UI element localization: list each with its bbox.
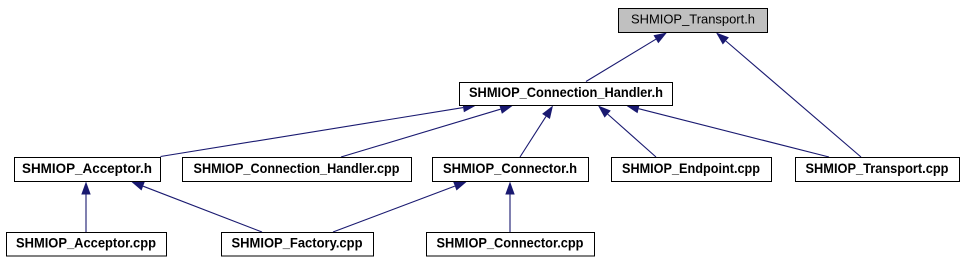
wire Transport.cpp to Transport.h bbox=[716, 33, 861, 158]
node SHMIOP_Acceptor.cpp bbox=[7, 233, 167, 257]
wire Endpoint.cpp to Connection_Handler.h bbox=[598, 106, 656, 158]
svg-text:SHMIOP_Acceptor.cpp: SHMIOP_Acceptor.cpp bbox=[16, 235, 156, 251]
wire Connector.h to Connection_Handler.h bbox=[520, 106, 553, 158]
node SHMIOP_Factory.cpp bbox=[222, 233, 374, 257]
wire Connector.cpp to Connector.h bbox=[505, 182, 514, 233]
svg-text:SHMIOP_Endpoint.cpp: SHMIOP_Endpoint.cpp bbox=[622, 160, 760, 176]
node SHMIOP_Connection_Handler.h bbox=[460, 83, 673, 106]
wire Connection_Handler.h to Transport.h bbox=[586, 33, 667, 82]
node SHMIOP_Connection_Handler.cpp bbox=[183, 158, 412, 182]
wire Transport.cpp to Connection_Handler.h bbox=[626, 104, 829, 157]
node SHMIOP_Connector.cpp bbox=[427, 233, 595, 257]
node SHMIOP_Acceptor.h bbox=[15, 158, 161, 182]
svg-text:SHMIOP_Acceptor.h: SHMIOP_Acceptor.h bbox=[22, 160, 152, 176]
wire Acceptor.cpp to Acceptor.h bbox=[81, 182, 90, 233]
svg-text:SHMIOP_Connection_Handler.h: SHMIOP_Connection_Handler.h bbox=[469, 84, 663, 100]
svg-text:SHMIOP_Transport.cpp: SHMIOP_Transport.cpp bbox=[806, 160, 949, 176]
wire Factory.cpp to Connector.h bbox=[333, 182, 467, 233]
svg-text:SHMIOP_Connector.h: SHMIOP_Connector.h bbox=[443, 160, 577, 176]
node SHMIOP_Transport.h (root, grey) bbox=[619, 9, 768, 33]
wire Connection_Handler.cpp to Connection_Handler.h bbox=[341, 105, 513, 157]
node SHMIOP_Endpoint.cpp bbox=[612, 158, 772, 182]
svg-text:SHMIOP_Factory.cpp: SHMIOP_Factory.cpp bbox=[232, 235, 363, 251]
svg-text:SHMIOP_Connector.cpp: SHMIOP_Connector.cpp bbox=[437, 235, 584, 251]
svg-text:SHMIOP_Transport.h: SHMIOP_Transport.h bbox=[631, 12, 755, 27]
wire Acceptor.h to Connection_Handler.h bbox=[161, 103, 477, 157]
svg-text:SHMIOP_Connection_Handler.cpp: SHMIOP_Connection_Handler.cpp bbox=[194, 160, 400, 176]
node SHMIOP_Transport.cpp bbox=[796, 158, 960, 182]
wire Factory.cpp to Acceptor.h bbox=[131, 182, 262, 233]
node SHMIOP_Connector.h bbox=[433, 158, 589, 182]
